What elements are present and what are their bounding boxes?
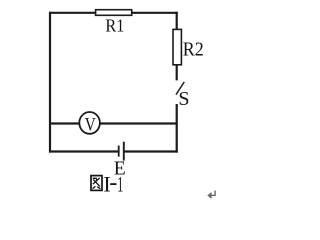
svg-text:R1: R1 (105, 16, 124, 36)
paragraph return mark (208, 191, 215, 199)
battery E negative plate (short) (118, 146, 120, 157)
svg-text:1: 1 (117, 172, 123, 197)
wire bottom left of battery (49, 150, 118, 152)
svg-text:R2: R2 (183, 39, 204, 61)
resistor R2 (173, 29, 181, 64)
svg-text:S: S (178, 88, 189, 110)
voltmeter U1 (79, 112, 100, 134)
wire right side lower (switch to bottom corner) (176, 104, 178, 153)
caption character 图 inner strokes (93, 178, 101, 189)
wire voltmeter branch left (49, 122, 80, 124)
wire right side upper (top corner to switch) (176, 12, 178, 81)
svg-text:I: I (103, 172, 110, 197)
battery E positive plate (long) (123, 142, 125, 161)
wire left side (49, 12, 51, 153)
wire bottom right of battery (124, 150, 177, 152)
caption character 图 box (91, 176, 102, 191)
svg-text:V: V (85, 116, 97, 136)
wire voltmeter branch right (100, 122, 178, 124)
switch S blade (176, 82, 184, 95)
resistor R1 (96, 10, 132, 16)
caption hyphen (110, 183, 116, 185)
wire top side (49, 12, 178, 14)
